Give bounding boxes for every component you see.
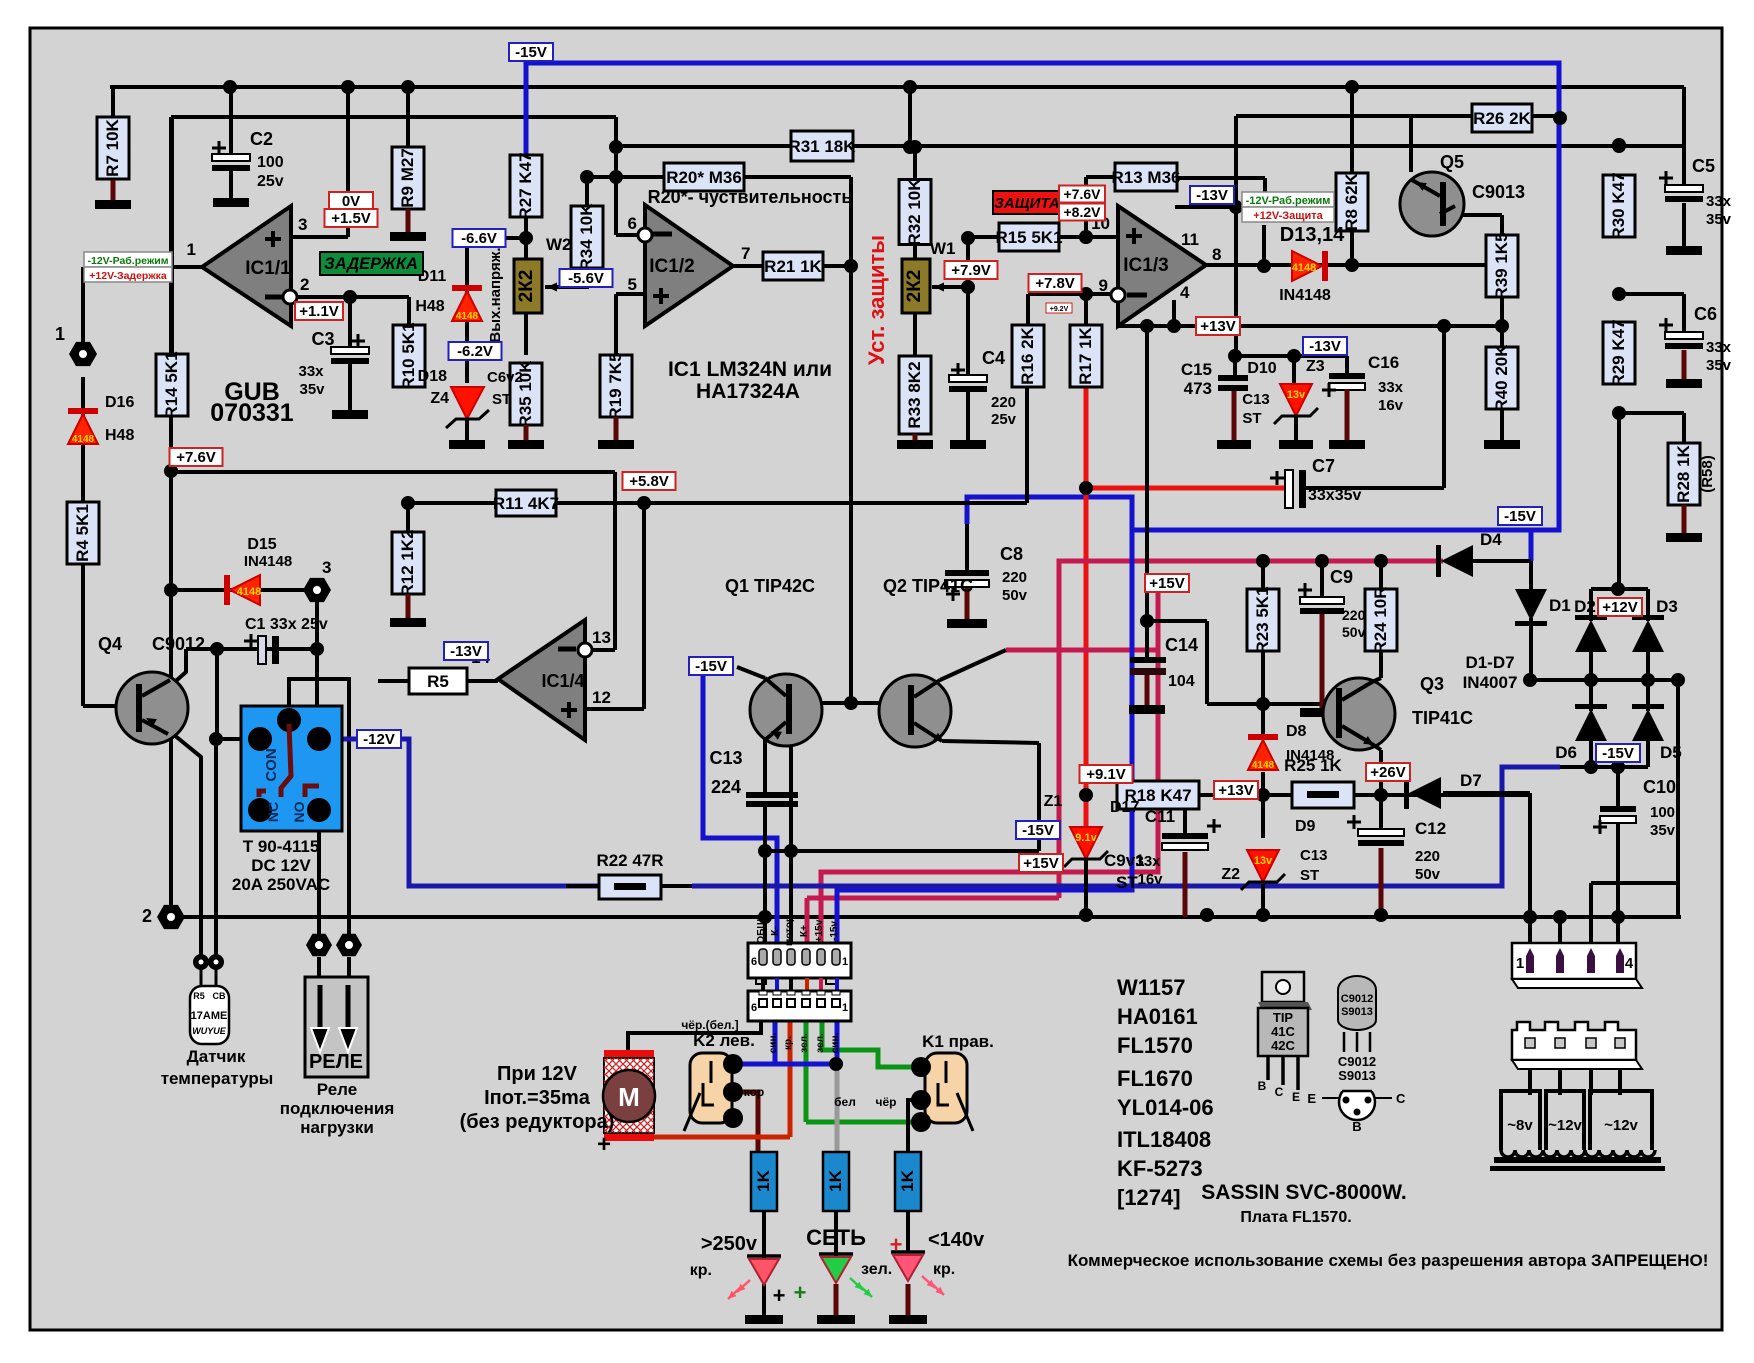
svg-text:+7.9V: +7.9V xyxy=(951,262,991,279)
svg-text:R11 4K7: R11 4K7 xyxy=(493,494,559,513)
svg-text:35v: 35v xyxy=(1706,357,1732,374)
svg-text:+: + xyxy=(597,1131,611,1158)
svg-text:СЕТЬ: СЕТЬ xyxy=(806,1225,866,1250)
svg-text:35v: 35v xyxy=(1650,822,1676,839)
svg-text:4148: 4148 xyxy=(456,311,479,322)
svg-text:[1274]: [1274] xyxy=(1117,1185,1181,1210)
svg-text:D1: D1 xyxy=(1549,596,1571,615)
svg-text:4: 4 xyxy=(1625,955,1634,972)
svg-text:104: 104 xyxy=(1168,673,1195,690)
svg-text:220: 220 xyxy=(1415,848,1440,865)
svg-text:220: 220 xyxy=(991,394,1016,411)
svg-text:-15V: -15V xyxy=(1602,745,1634,762)
svg-text:C9012: C9012 xyxy=(1341,993,1373,1005)
svg-text:РЕЛЕ: РЕЛЕ xyxy=(309,1051,363,1073)
svg-text:4148: 4148 xyxy=(237,586,261,598)
svg-text:33x: 33x xyxy=(1706,339,1732,356)
svg-text:H48: H48 xyxy=(415,298,444,315)
svg-text:R27 K47: R27 K47 xyxy=(516,152,535,219)
svg-text:К+: К+ xyxy=(799,925,810,937)
svg-text:Q4: Q4 xyxy=(98,634,122,654)
svg-text:T 90-4115: T 90-4115 xyxy=(243,837,320,856)
svg-text:+12V: +12V xyxy=(1602,599,1637,616)
svg-text:C1 33x 25v: C1 33x 25v xyxy=(245,616,328,633)
svg-text:R17 1K: R17 1K xyxy=(1076,326,1095,384)
svg-text:W2: W2 xyxy=(546,235,572,254)
svg-text:Q1 TIP42C: Q1 TIP42C xyxy=(725,576,815,596)
svg-text:+: + xyxy=(794,1280,807,1305)
svg-text:5: 5 xyxy=(628,275,637,294)
svg-text:33x: 33x xyxy=(1706,193,1732,210)
svg-text:50v: 50v xyxy=(1342,624,1366,640)
svg-text:R7 10K: R7 10K xyxy=(103,118,122,176)
svg-text:К-: К- xyxy=(770,926,781,935)
svg-text:R29 K47: R29 K47 xyxy=(1609,319,1628,386)
svg-text:+7.6V: +7.6V xyxy=(1064,186,1102,202)
svg-text:R33 8K2: R33 8K2 xyxy=(905,361,924,428)
svg-text:13v: 13v xyxy=(1254,855,1273,867)
svg-text:R16 2K: R16 2K xyxy=(1018,326,1037,384)
svg-text:R20*- чуствительность: R20*- чуствительность xyxy=(648,187,853,207)
svg-text:6: 6 xyxy=(628,214,637,233)
svg-text:C13: C13 xyxy=(709,748,742,768)
svg-text:ITL18408: ITL18408 xyxy=(1117,1127,1211,1152)
svg-text:~12v: ~12v xyxy=(1548,1117,1582,1134)
svg-text:Уст. защиты: Уст. защиты xyxy=(864,235,889,365)
svg-text:При 12V: При 12V xyxy=(497,1063,578,1085)
svg-text:SASSIN SVC-8000W.: SASSIN SVC-8000W. xyxy=(1201,1181,1406,1204)
svg-text:CON: CON xyxy=(263,748,280,781)
svg-text:4148: 4148 xyxy=(1292,262,1316,274)
svg-text:R14 5K1: R14 5K1 xyxy=(162,351,181,418)
svg-text:C9: C9 xyxy=(1330,567,1353,587)
svg-text:(R58): (R58) xyxy=(1699,455,1716,493)
svg-text:+26V: +26V xyxy=(1370,764,1405,781)
svg-text:Q3: Q3 xyxy=(1420,674,1444,694)
svg-text:-15V: -15V xyxy=(515,44,547,61)
svg-text:7: 7 xyxy=(741,244,750,263)
svg-text:C9012: C9012 xyxy=(1338,1054,1376,1069)
svg-text:16v: 16v xyxy=(1378,397,1404,414)
svg-text:1K: 1K xyxy=(898,1169,917,1191)
svg-text:TIP: TIP xyxy=(1273,1010,1294,1025)
svg-text:S9013: S9013 xyxy=(1338,1068,1376,1083)
svg-text:C16: C16 xyxy=(1368,353,1399,372)
svg-text:0V: 0V xyxy=(342,193,360,210)
svg-text:R10 5K1: R10 5K1 xyxy=(399,322,418,389)
svg-text:чёр.(бел.]: чёр.(бел.] xyxy=(681,1018,738,1032)
svg-text:Плата FL1570.: Плата FL1570. xyxy=(1240,1209,1351,1226)
svg-text:8: 8 xyxy=(1212,245,1221,264)
svg-text:C9v1: C9v1 xyxy=(1104,851,1145,870)
svg-text:IN4148: IN4148 xyxy=(244,553,292,570)
svg-text:IN4148: IN4148 xyxy=(1279,287,1331,304)
svg-text:R24 10R: R24 10R xyxy=(1371,586,1390,653)
svg-text:-12V-Раб.режим: -12V-Раб.режим xyxy=(1246,195,1331,207)
svg-text:+: + xyxy=(773,1283,786,1308)
svg-text:E: E xyxy=(1307,1091,1316,1106)
svg-text:B: B xyxy=(1352,1119,1361,1134)
svg-text:C9012: C9012 xyxy=(152,634,205,654)
svg-text:Датчик: Датчик xyxy=(187,1047,246,1066)
svg-text:Z4: Z4 xyxy=(430,390,449,407)
svg-text:+5.8V: +5.8V xyxy=(629,473,669,490)
svg-text:+15v: +15v xyxy=(814,919,825,942)
svg-text:R12 1K2: R12 1K2 xyxy=(398,529,417,596)
svg-text:2К2: 2К2 xyxy=(904,270,925,303)
svg-text:R20* M36: R20* M36 xyxy=(666,168,742,187)
svg-text:1: 1 xyxy=(55,324,65,344)
svg-text:-5.6V: -5.6V xyxy=(568,270,604,287)
svg-text:DC 12V: DC 12V xyxy=(251,856,311,875)
svg-text:3: 3 xyxy=(322,558,331,577)
svg-text:IC1/2: IC1/2 xyxy=(649,256,694,277)
svg-text:100: 100 xyxy=(1650,804,1675,821)
svg-text:мотор: мотор xyxy=(784,916,795,946)
svg-text:FL1670: FL1670 xyxy=(1117,1066,1193,1091)
svg-text:R8 62K: R8 62K xyxy=(1342,172,1361,230)
svg-text:1: 1 xyxy=(842,956,848,968)
svg-text:син.: син. xyxy=(768,1033,779,1054)
svg-text:чёр: чёр xyxy=(876,1095,897,1109)
svg-text:070331: 070331 xyxy=(210,399,294,427)
svg-text:Z1: Z1 xyxy=(1044,793,1063,810)
svg-text:-15V: -15V xyxy=(1504,508,1536,525)
svg-text:C: C xyxy=(1396,1091,1406,1106)
svg-text:D9: D9 xyxy=(1295,818,1316,835)
svg-text:кр.: кр. xyxy=(783,1036,794,1050)
svg-text:220: 220 xyxy=(1342,607,1366,623)
svg-text:2: 2 xyxy=(300,275,309,294)
svg-text:подключения: подключения xyxy=(280,1099,395,1118)
svg-text:C8: C8 xyxy=(1000,544,1023,564)
svg-text:473: 473 xyxy=(1184,379,1212,398)
svg-text:11: 11 xyxy=(1181,230,1199,249)
svg-text:S9013: S9013 xyxy=(1341,1006,1373,1018)
svg-text:1: 1 xyxy=(842,1002,848,1014)
svg-text:<140v: <140v xyxy=(928,1229,985,1251)
svg-text:H48: H48 xyxy=(105,427,134,444)
svg-text:кр.: кр. xyxy=(933,1261,955,1278)
svg-text:42C: 42C xyxy=(1271,1038,1295,1053)
svg-text:бел: бел xyxy=(834,1095,856,1109)
svg-text:6: 6 xyxy=(751,1002,757,1014)
svg-text:-15V: -15V xyxy=(1022,822,1054,839)
svg-text:R21 1K: R21 1K xyxy=(764,257,822,276)
svg-text:1K: 1K xyxy=(826,1169,845,1191)
svg-text:13: 13 xyxy=(592,628,611,647)
svg-text:+8.2V: +8.2V xyxy=(1064,204,1102,220)
svg-text:IC1/1: IC1/1 xyxy=(245,258,291,279)
svg-text:2К2: 2К2 xyxy=(516,270,537,303)
svg-text:1: 1 xyxy=(1516,955,1524,972)
svg-text:C14: C14 xyxy=(1165,635,1198,655)
svg-text:IN4007: IN4007 xyxy=(1463,673,1518,692)
svg-text:-6.2V: -6.2V xyxy=(457,343,493,360)
svg-text:220: 220 xyxy=(1002,569,1027,586)
svg-text:NO: NO xyxy=(291,801,307,822)
svg-text:C13: C13 xyxy=(1242,391,1270,408)
svg-text:R34 10K: R34 10K xyxy=(577,203,596,271)
svg-text:IN4148: IN4148 xyxy=(1286,747,1334,764)
svg-text:3: 3 xyxy=(298,215,307,234)
svg-text:C10: C10 xyxy=(1643,777,1676,797)
svg-text:NC: NC xyxy=(265,802,281,822)
svg-text:HA17324A: HA17324A xyxy=(696,380,800,403)
svg-text:CB: CB xyxy=(213,991,226,1001)
svg-text:+9.1V: +9.1V xyxy=(1086,766,1126,783)
svg-text:IC1/4: IC1/4 xyxy=(541,671,584,691)
svg-text:C4: C4 xyxy=(982,348,1005,368)
svg-text:2: 2 xyxy=(142,906,152,926)
svg-text:KF-5273: KF-5273 xyxy=(1117,1156,1203,1181)
svg-text:1K: 1K xyxy=(754,1169,773,1191)
svg-text:ОБЩ: ОБЩ xyxy=(756,918,767,944)
svg-text:13v: 13v xyxy=(1287,389,1306,401)
svg-text:R23 5K1: R23 5K1 xyxy=(1253,586,1272,653)
svg-text:C9013: C9013 xyxy=(1472,182,1525,202)
svg-text:D17: D17 xyxy=(1110,799,1139,816)
svg-text:ST: ST xyxy=(1300,867,1319,884)
svg-text:R26 2K: R26 2K xyxy=(1473,109,1531,128)
svg-text:C2: C2 xyxy=(250,129,273,149)
svg-text:Вых.напряж.: Вых.напряж. xyxy=(487,247,504,342)
svg-text:R22 47R: R22 47R xyxy=(596,851,663,870)
svg-text:9.1v: 9.1v xyxy=(1075,832,1097,844)
svg-text:224: 224 xyxy=(711,777,741,797)
svg-text:33x: 33x xyxy=(1378,379,1404,396)
svg-text:ST: ST xyxy=(1242,410,1261,427)
svg-text:R19 7K5: R19 7K5 xyxy=(606,352,625,419)
svg-text:+15V: +15V xyxy=(1149,575,1184,592)
svg-text:C6v2: C6v2 xyxy=(487,369,523,386)
svg-text:W1: W1 xyxy=(930,239,956,258)
svg-text:Z3: Z3 xyxy=(1306,358,1325,375)
svg-text:D7: D7 xyxy=(1460,771,1482,790)
svg-text:+9.2V: +9.2V xyxy=(1050,306,1069,313)
svg-text:16v: 16v xyxy=(1137,871,1163,888)
svg-text:+7.8V: +7.8V xyxy=(1035,275,1075,292)
svg-text:C: C xyxy=(1275,1085,1284,1099)
svg-text:100: 100 xyxy=(257,154,284,171)
svg-text:~12v: ~12v xyxy=(1604,1117,1638,1134)
svg-text:4148: 4148 xyxy=(72,434,95,445)
svg-text:ЗАЩИТА: ЗАЩИТА xyxy=(994,195,1060,212)
svg-text:20A 250VAC: 20A 250VAC xyxy=(232,875,330,894)
svg-text:R32 10K: R32 10K xyxy=(905,178,924,246)
svg-text:температуры: температуры xyxy=(161,1069,274,1088)
svg-text:Реле: Реле xyxy=(317,1080,357,1099)
svg-text:Коммерческое использование схе: Коммерческое использование схемы без раз… xyxy=(1068,1251,1709,1270)
svg-text:33x: 33x xyxy=(298,363,324,380)
svg-text:Q2 TIP41C: Q2 TIP41C xyxy=(883,576,973,596)
svg-text:Z2: Z2 xyxy=(1221,866,1240,883)
svg-text:-13V: -13V xyxy=(1196,187,1228,204)
svg-text:C11: C11 xyxy=(1145,807,1175,826)
svg-text:R9 M27: R9 M27 xyxy=(398,148,417,208)
svg-text:25v: 25v xyxy=(257,173,284,190)
svg-text:кр.: кр. xyxy=(690,1262,712,1279)
svg-text:FL1570: FL1570 xyxy=(1117,1033,1193,1058)
svg-text:4: 4 xyxy=(1180,283,1190,302)
svg-text:D15: D15 xyxy=(247,536,276,553)
svg-text:+13V: +13V xyxy=(1200,318,1235,335)
svg-text:17AME: 17AME xyxy=(191,1010,228,1022)
svg-text:R28 1K: R28 1K xyxy=(1674,444,1693,502)
svg-text:+15V: +15V xyxy=(1023,855,1058,872)
svg-text:R13 M36: R13 M36 xyxy=(1112,168,1181,187)
svg-text:B: B xyxy=(1258,1079,1267,1093)
svg-text:E: E xyxy=(1292,1090,1300,1104)
svg-text:D2: D2 xyxy=(1574,597,1596,616)
svg-text:(без редуктора): (без редуктора) xyxy=(460,1111,615,1133)
svg-text:35v: 35v xyxy=(1706,211,1732,228)
svg-text:C6: C6 xyxy=(1694,304,1717,324)
svg-text:D16: D16 xyxy=(105,394,134,411)
svg-text:D1-D7: D1-D7 xyxy=(1465,653,1514,672)
svg-text:12: 12 xyxy=(592,688,611,707)
svg-text:-12V-Раб.режим: -12V-Раб.режим xyxy=(88,255,169,267)
svg-text:TIP41C: TIP41C xyxy=(1412,708,1473,728)
svg-text:~8v: ~8v xyxy=(1507,1117,1533,1134)
svg-text:D8: D8 xyxy=(1286,723,1307,740)
svg-text:ЗАДЕРЖКА: ЗАДЕРЖКА xyxy=(324,255,418,273)
svg-text:W1157: W1157 xyxy=(1117,975,1186,1000)
svg-text:Iпот.=35ma: Iпот.=35ma xyxy=(484,1087,591,1109)
svg-text:C15: C15 xyxy=(1181,360,1212,379)
svg-text:WUYUE: WUYUE xyxy=(192,1026,226,1036)
svg-text:R5: R5 xyxy=(193,991,205,1001)
svg-text:R4 5K1: R4 5K1 xyxy=(73,504,92,562)
svg-text:50v: 50v xyxy=(1002,587,1028,604)
svg-text:C5: C5 xyxy=(1692,156,1715,176)
svg-text:D3: D3 xyxy=(1656,597,1678,616)
svg-text:K2 лев.: K2 лев. xyxy=(693,1031,755,1050)
svg-text:+12V-Защита: +12V-Защита xyxy=(1253,210,1323,222)
svg-text:-13V: -13V xyxy=(1309,338,1341,355)
svg-text:C12: C12 xyxy=(1415,819,1446,838)
svg-text:кор: кор xyxy=(744,1085,765,1099)
svg-text:33x35v: 33x35v xyxy=(1308,487,1361,504)
svg-text:ST: ST xyxy=(492,391,511,408)
svg-text:+1.1V: +1.1V xyxy=(299,303,339,320)
svg-text:ST: ST xyxy=(1116,873,1138,892)
svg-text:>250v: >250v xyxy=(701,1233,758,1255)
svg-text:41C: 41C xyxy=(1271,1024,1295,1039)
svg-text:IC1/3: IC1/3 xyxy=(1123,255,1168,276)
svg-text:+: + xyxy=(890,1232,903,1257)
svg-text:R30 K47: R30 K47 xyxy=(1609,172,1628,239)
svg-text:Q5: Q5 xyxy=(1440,152,1464,172)
svg-text:50v: 50v xyxy=(1415,866,1441,883)
svg-text:R31 18K: R31 18K xyxy=(788,137,856,156)
svg-text:син.: син. xyxy=(830,1033,841,1054)
svg-text:-12V: -12V xyxy=(363,731,395,748)
svg-text:M: M xyxy=(618,1082,640,1112)
svg-text:+13V: +13V xyxy=(1218,782,1253,799)
svg-text:зел.: зел. xyxy=(815,1033,826,1053)
svg-text:D6: D6 xyxy=(1555,743,1577,762)
svg-text:35v: 35v xyxy=(299,381,325,398)
svg-text:-6.6V: -6.6V xyxy=(461,230,497,247)
svg-text:-15V: -15V xyxy=(695,658,727,675)
svg-text:25v: 25v xyxy=(991,411,1017,428)
svg-text:D10: D10 xyxy=(1247,360,1276,377)
svg-text:6: 6 xyxy=(751,956,757,968)
svg-text:+7.6V: +7.6V xyxy=(176,449,216,466)
svg-text:D18: D18 xyxy=(418,368,447,385)
svg-text:C13: C13 xyxy=(1300,847,1328,864)
svg-text:-15v: -15v xyxy=(829,921,840,941)
svg-text:-13V: -13V xyxy=(450,643,482,660)
svg-text:нагрузки: нагрузки xyxy=(300,1118,374,1137)
svg-text:C3: C3 xyxy=(311,329,334,349)
svg-text:IC1 LM324N или: IC1 LM324N или xyxy=(668,358,832,381)
svg-text:D4: D4 xyxy=(1480,530,1502,549)
svg-text:4148: 4148 xyxy=(1252,760,1275,771)
svg-text:C7: C7 xyxy=(1312,456,1335,476)
svg-text:1: 1 xyxy=(187,240,196,259)
svg-text:K1 прав.: K1 прав. xyxy=(922,1032,994,1051)
svg-text:зел.: зел. xyxy=(799,1033,810,1053)
svg-text:R39 1K5: R39 1K5 xyxy=(1492,232,1511,299)
svg-text:9: 9 xyxy=(1099,276,1108,295)
svg-text:зел.: зел. xyxy=(861,1261,892,1278)
svg-text:+1.5V: +1.5V xyxy=(331,210,371,227)
svg-text:YL014-06: YL014-06 xyxy=(1117,1095,1214,1120)
svg-text:D5: D5 xyxy=(1660,743,1682,762)
svg-text:R40 20K: R40 20K xyxy=(1492,344,1511,412)
svg-text:D13,14: D13,14 xyxy=(1280,224,1345,246)
svg-text:R5: R5 xyxy=(427,672,449,691)
svg-text:HA0161: HA0161 xyxy=(1117,1004,1198,1029)
svg-text:+12V-Задержка: +12V-Задержка xyxy=(89,270,167,282)
svg-text:R15 5K1: R15 5K1 xyxy=(995,228,1062,247)
